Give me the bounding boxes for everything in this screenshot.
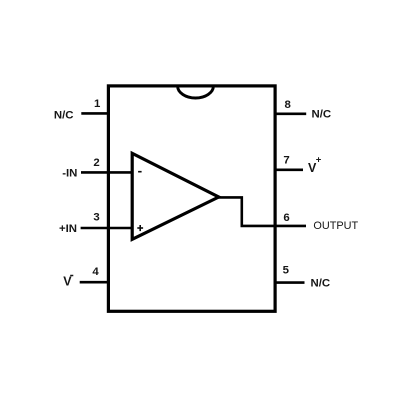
svg-text:N/C: N/C	[54, 109, 74, 121]
svg-text:+: +	[316, 155, 322, 166]
svg-text:7: 7	[283, 155, 289, 167]
svg-text:8: 8	[285, 99, 291, 111]
svg-text:OUTPUT: OUTPUT	[313, 220, 358, 232]
svg-text:5: 5	[283, 265, 290, 277]
svg-text:N/C: N/C	[311, 278, 331, 290]
svg-text:V: V	[63, 275, 72, 289]
svg-text:6: 6	[283, 212, 289, 224]
svg-text:N/C: N/C	[312, 108, 332, 120]
svg-text:3: 3	[93, 212, 99, 224]
svg-text:4: 4	[92, 266, 99, 278]
svg-text:1: 1	[94, 98, 101, 110]
svg-text:+IN: +IN	[59, 223, 77, 235]
svg-text:2: 2	[93, 157, 99, 169]
svg-text:-IN: -IN	[62, 168, 77, 180]
